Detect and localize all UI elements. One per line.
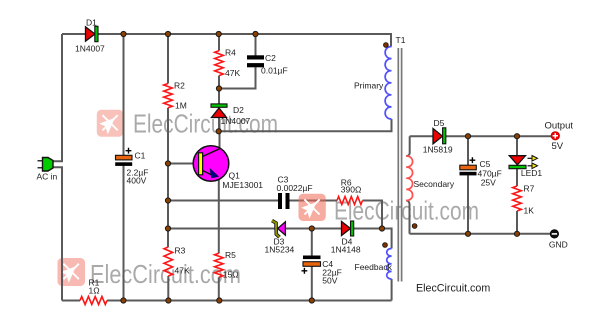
AC input connector <box>38 158 54 172</box>
svg-text:AC in: AC in <box>37 172 58 182</box>
resistor R3 <box>164 247 173 276</box>
node bottom rail R5 <box>217 298 222 303</box>
wire collector <box>219 131 221 149</box>
ground terminal <box>550 230 558 238</box>
svg-text:1N4007: 1N4007 <box>221 116 251 126</box>
transformer feedback winding <box>387 249 392 280</box>
node top rail C1 <box>121 31 126 36</box>
transformer T1 core <box>398 48 401 282</box>
svg-text:C2: C2 <box>265 53 276 63</box>
wire top rail D1 to primary <box>98 34 392 47</box>
svg-text:25V: 25V <box>481 178 496 188</box>
node collector <box>216 129 221 134</box>
wire secondary top lead <box>406 136 410 156</box>
diode D2 <box>211 104 227 118</box>
svg-text:R2: R2 <box>174 81 185 91</box>
WATERMARKS <box>58 109 480 290</box>
svg-text:1N4007: 1N4007 <box>75 44 105 54</box>
svg-text:MJE13001: MJE13001 <box>222 180 263 190</box>
wire output bottom rail <box>410 233 551 235</box>
svg-text:R5: R5 <box>225 250 236 260</box>
zener diode D3 <box>272 221 285 238</box>
wire base <box>168 163 199 165</box>
wire feedback bottom <box>391 279 393 301</box>
svg-text:1N5234: 1N5234 <box>265 245 295 255</box>
capacitor C3 <box>278 193 290 209</box>
node bottom rail R3 <box>166 298 171 303</box>
svg-text:R7: R7 <box>524 184 535 194</box>
svg-text:Secondary: Secondary <box>414 179 455 189</box>
resistor R4 <box>215 51 224 76</box>
svg-text:15Ω: 15Ω <box>223 270 239 280</box>
wire top rail left of D1 <box>62 33 86 35</box>
wire C4 branch <box>311 229 313 301</box>
wire R4 D2 branch <box>218 34 220 131</box>
svg-text:ElecCircuit.com: ElecCircuit.com <box>133 109 278 139</box>
output terminal <box>551 132 559 140</box>
wire C2 branch <box>219 34 256 89</box>
svg-text:47K: 47K <box>225 68 240 78</box>
svg-text:1Ω: 1Ω <box>89 286 100 296</box>
svg-text:1N5819: 1N5819 <box>423 144 453 154</box>
svg-text:ElecCircuit.com: ElecCircuit.com <box>416 283 490 295</box>
LED1 <box>509 156 538 169</box>
svg-text:T1: T1 <box>396 35 406 45</box>
node base <box>165 161 170 166</box>
svg-text:Feedback: Feedback <box>355 262 393 272</box>
node output C5 top <box>465 134 470 139</box>
svg-text:0.0022µF: 0.0022µF <box>277 183 313 193</box>
svg-text:Output: Output <box>545 121 574 132</box>
node C3 row <box>165 198 170 203</box>
node bottom rail C4 <box>309 298 314 303</box>
diode D5 <box>433 128 446 144</box>
watermark logo square 3 <box>58 258 86 286</box>
diode D4 <box>342 221 354 236</box>
node output C5 bottom <box>465 231 470 236</box>
svg-text:1K: 1K <box>524 206 535 216</box>
feedback phase dot <box>383 243 388 248</box>
node top rail R4 <box>216 31 221 36</box>
transistor Q1 <box>193 146 229 182</box>
node output LED bottom <box>514 231 519 236</box>
capacitor C2 <box>247 55 264 67</box>
resistor R2 <box>164 84 173 108</box>
wire C3 R6 row <box>168 201 382 229</box>
svg-text:Primary: Primary <box>354 81 384 91</box>
svg-text:1M: 1M <box>175 101 187 111</box>
node C4 top <box>309 226 314 231</box>
svg-text:GND: GND <box>549 239 568 249</box>
watermark logo square 1 <box>97 110 123 137</box>
node top rail R2 <box>165 31 170 36</box>
wire C5 branch <box>467 136 469 234</box>
svg-text:Q1: Q1 <box>229 170 241 180</box>
capacitor C5 <box>460 157 477 175</box>
resistor R7 <box>513 186 522 211</box>
wire primary bottom to collector node <box>219 119 392 131</box>
wire left rail upper <box>53 34 63 161</box>
node R4-D2-C2 <box>216 86 221 91</box>
wire C1 branch <box>123 34 125 301</box>
primary phase dot <box>384 43 389 48</box>
node R6-feedback <box>379 226 384 231</box>
resistor R5 <box>215 253 224 277</box>
resistor R6 <box>337 197 363 205</box>
svg-text:0.01µF: 0.01µF <box>261 66 288 76</box>
wire LED R7 branch <box>516 136 518 234</box>
svg-text:C1: C1 <box>135 151 146 161</box>
svg-text:C5: C5 <box>480 159 491 169</box>
resistor R1 <box>80 297 107 305</box>
transformer secondary winding <box>406 156 412 201</box>
svg-text:50V: 50V <box>322 276 337 286</box>
transformer primary winding <box>385 47 391 120</box>
node output LED top <box>514 134 519 139</box>
svg-text:D2: D2 <box>233 105 244 115</box>
svg-text:400V: 400V <box>127 176 147 186</box>
capacitor C4 <box>302 256 321 274</box>
wire secondary bottom lead <box>406 201 409 234</box>
svg-text:LED1: LED1 <box>521 168 543 178</box>
wire emitter <box>218 179 220 301</box>
capacitor C1 <box>115 148 132 166</box>
wire output top <box>410 135 552 137</box>
node bottom rail C1 <box>121 298 126 303</box>
secondary phase dot <box>412 224 417 229</box>
wire R2 R3 branch <box>167 34 169 301</box>
svg-text:D1: D1 <box>86 18 97 28</box>
svg-text:47K: 47K <box>175 266 190 276</box>
wire D3 D4 row <box>168 229 392 249</box>
watermark logo square 2 <box>299 194 326 221</box>
wire bottom rail <box>62 300 392 302</box>
node top rail C2 <box>253 31 258 36</box>
svg-text:1N4148: 1N4148 <box>331 245 361 255</box>
svg-text:D5: D5 <box>434 118 445 128</box>
svg-text:5V: 5V <box>552 141 564 152</box>
svg-text:390Ω: 390Ω <box>341 185 362 195</box>
diode D1 <box>86 26 99 41</box>
node D3 row <box>165 226 170 231</box>
svg-text:R3: R3 <box>175 246 186 256</box>
svg-text:R4: R4 <box>225 48 236 58</box>
wire left rail lower <box>53 167 63 300</box>
